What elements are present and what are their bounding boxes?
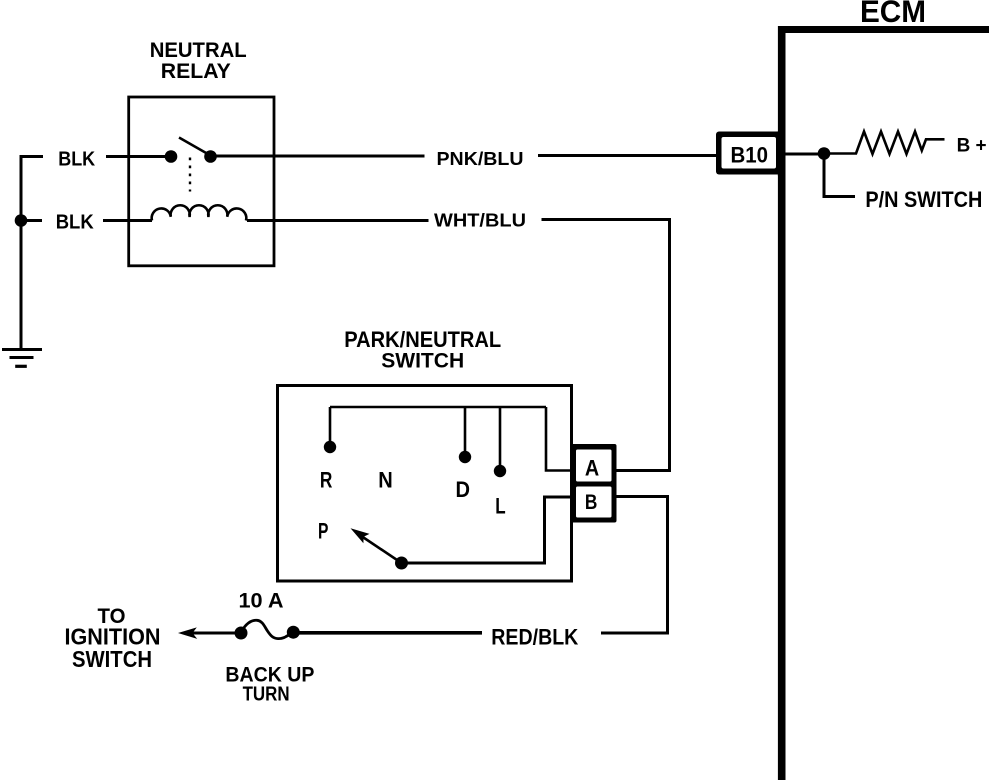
svg-text:N: N [378,467,393,492]
svg-text:B: B [585,490,598,514]
svg-text:RELAY: RELAY [161,59,231,83]
svg-text:10 A: 10 A [239,589,284,612]
svg-text:SWITCH: SWITCH [72,646,152,672]
svg-text:PNK/BLU: PNK/BLU [437,149,524,169]
svg-text:R: R [320,467,333,492]
svg-text:L: L [495,494,505,519]
svg-text:WHT/BLU: WHT/BLU [434,211,526,231]
svg-text:B +: B + [957,135,987,156]
svg-text:P: P [318,518,328,543]
svg-text:BLK: BLK [58,148,95,170]
svg-text:BLK: BLK [56,211,95,233]
svg-text:ECM: ECM [860,0,926,29]
svg-text:SWITCH: SWITCH [381,349,464,373]
svg-text:RED/BLK: RED/BLK [491,625,578,650]
svg-text:B10: B10 [731,143,769,168]
svg-text:A: A [585,456,599,481]
svg-text:P/N SWITCH: P/N SWITCH [865,187,982,212]
svg-text:TURN: TURN [243,684,290,706]
svg-text:D: D [456,477,471,502]
